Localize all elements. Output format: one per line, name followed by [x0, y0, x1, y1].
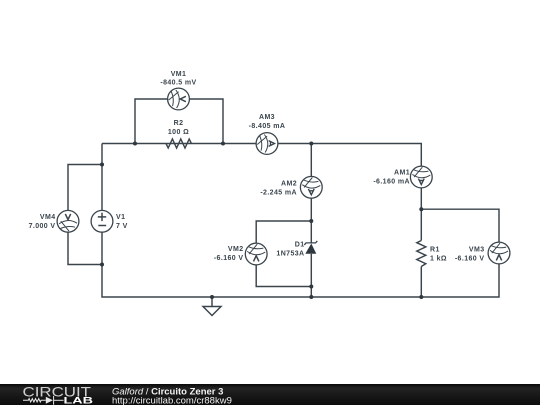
svg-text:7 V: 7 V [116, 223, 128, 230]
node junction VM1 left / top rail [133, 142, 137, 146]
zener diode D1 anode triangle [305, 244, 316, 254]
svg-text:AM3: AM3 [259, 114, 275, 121]
svg-text:-2.245 mA: -2.245 mA [260, 190, 297, 197]
svg-text:R1: R1 [430, 247, 440, 254]
wire VM2 loop top [256, 221, 311, 243]
wire VM1 right [190, 99, 224, 144]
voltmeter VM1 [168, 88, 190, 110]
node junction VM2 top / D1 branch [309, 219, 313, 223]
wire VM1 loop [135, 99, 168, 144]
svg-text:-6.160 mA: -6.160 mA [373, 179, 410, 186]
zener diode D1 cathode bar [304, 241, 317, 245]
svg-text:R2: R2 [174, 120, 184, 127]
svg-text:V1: V1 [116, 214, 125, 221]
wire AM2 to D1 [310, 198, 312, 243]
wire R1 bottom lead [420, 267, 422, 298]
wire AM2 branch upper [310, 144, 312, 177]
node junction D1 branch / bottom rail [309, 295, 313, 299]
node junction VM4 bottom / left branch [100, 263, 104, 267]
wire VM2 loop bottom [256, 265, 311, 287]
wire left vertical upper [101, 144, 103, 211]
wire VM3 branch top [421, 209, 499, 242]
svg-text:-6.160 V: -6.160 V [214, 255, 244, 262]
svg-text:7.000 V: 7.000 V [29, 223, 56, 230]
voltmeter VM2 [245, 243, 267, 265]
node junction VM1 right / top rail [221, 142, 225, 146]
node junction VM2 bottom / D1 branch [309, 285, 313, 289]
wire top rail left segment [102, 143, 256, 145]
wire top rail right segment [278, 144, 421, 167]
wire VM4 branch bottom [68, 232, 102, 264]
node junction VM4 top / left branch [100, 163, 104, 167]
svg-text:1N753A: 1N753A [276, 251, 304, 258]
svg-text:AM2: AM2 [281, 181, 297, 188]
svg-text:-840.5 mV: -840.5 mV [160, 80, 196, 87]
node junction ground / bottom rail [210, 295, 214, 299]
svg-text:VM3: VM3 [469, 247, 485, 254]
wire VM4 branch top [68, 165, 102, 211]
svg-text:-6.160 V: -6.160 V [455, 256, 485, 263]
wire left vertical lower [102, 232, 421, 297]
wire D1 to bottom [310, 254, 312, 297]
ground [211, 297, 213, 307]
svg-text:D1: D1 [295, 242, 305, 249]
wire VM3 branch bottom [421, 264, 499, 297]
svg-text:VM4: VM4 [40, 214, 56, 221]
node junction VM3 top / R1 branch [419, 207, 423, 211]
svg-text:100 Ω: 100 Ω [168, 129, 189, 136]
svg-text:-8.405 mA: -8.405 mA [249, 123, 286, 130]
resistor R1 [417, 241, 426, 267]
voltage source V1 [91, 210, 113, 232]
svg-text:LAB: LAB [64, 395, 94, 405]
voltmeter VM3 [488, 242, 510, 264]
svg-text:VM1: VM1 [171, 71, 187, 78]
svg-text:AM1: AM1 [394, 170, 410, 177]
ammeter AM1 [410, 166, 432, 188]
voltmeter VM4 [57, 210, 79, 232]
footer bar [0, 384, 540, 405]
svg-text:http://circuitlab.com/cr88kw9: http://circuitlab.com/cr88kw9 [112, 396, 232, 406]
node junction AM2 branch / top rail [309, 142, 313, 146]
ammeter AM3 [256, 133, 278, 155]
wire AM1 to R1 [420, 188, 422, 241]
resistor R2 [166, 139, 191, 148]
svg-text:1 kΩ: 1 kΩ [430, 256, 447, 263]
node junction R1 bottom / bottom rail [419, 295, 423, 299]
svg-text:VM2: VM2 [228, 246, 244, 253]
ammeter AM2 [300, 176, 322, 198]
